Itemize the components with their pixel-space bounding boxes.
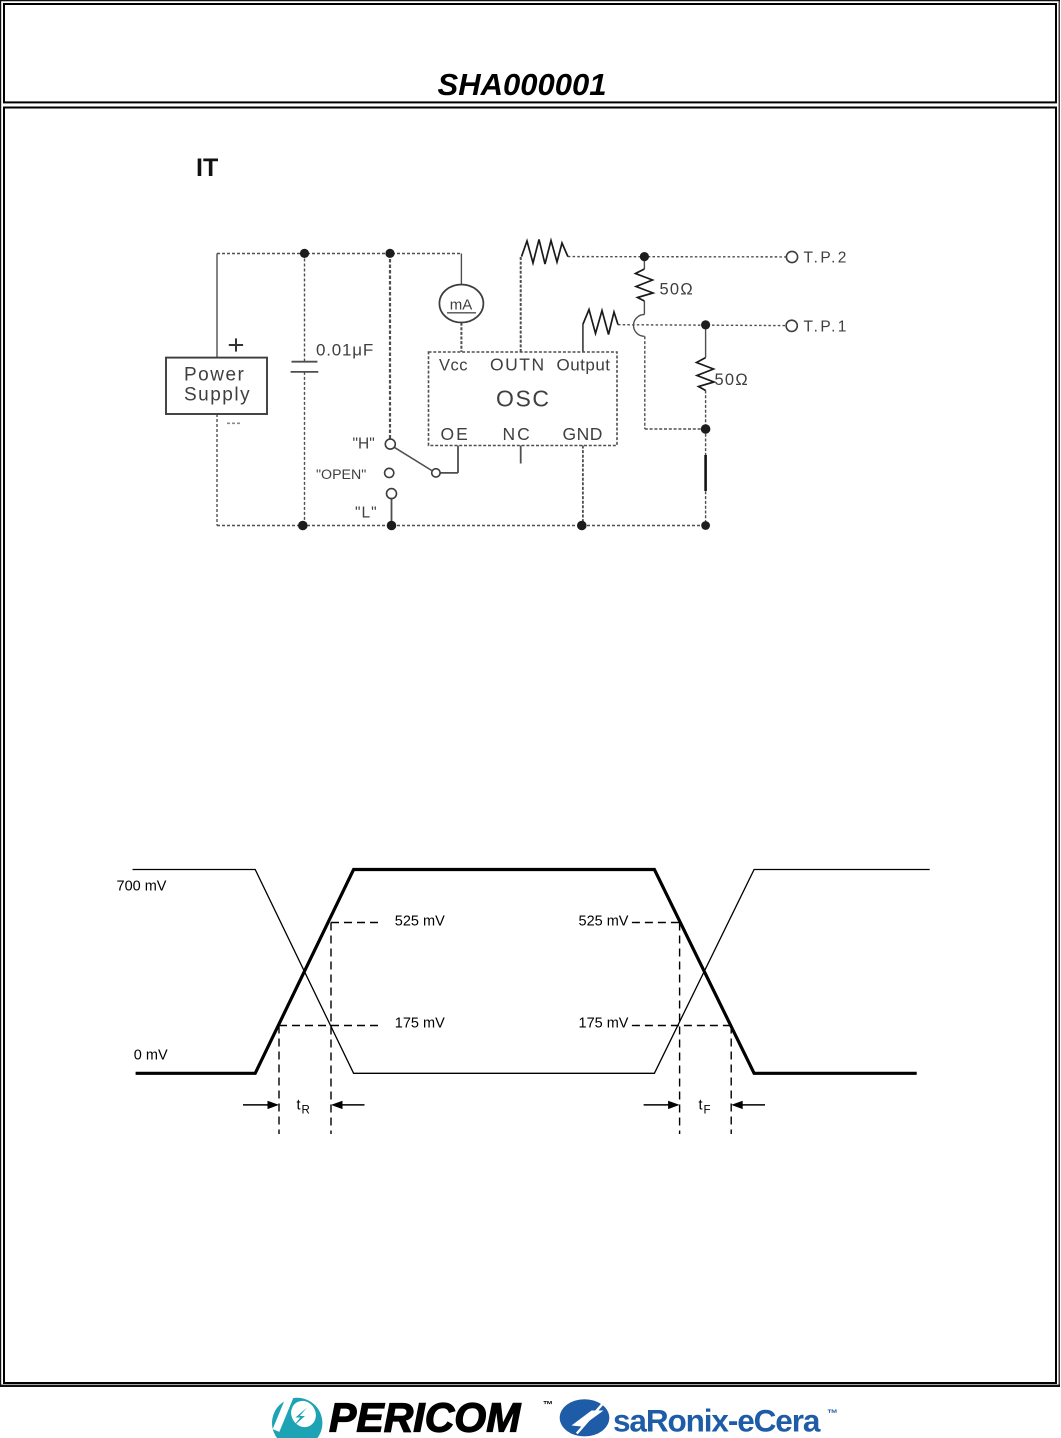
svg-text:0.01μF: 0.01μF bbox=[316, 341, 374, 360]
svg-text:50Ω: 50Ω bbox=[660, 281, 695, 299]
svg-text:175 mV: 175 mV bbox=[395, 1016, 445, 1032]
svg-text:175 mV: 175 mV bbox=[579, 1016, 629, 1032]
svg-text:™: ™ bbox=[543, 1400, 553, 1411]
svg-text:Supply: Supply bbox=[184, 385, 251, 406]
svg-text:"H": "H" bbox=[353, 436, 375, 453]
svg-text:PERICOM: PERICOM bbox=[329, 1395, 521, 1438]
svg-text:OSC: OSC bbox=[496, 386, 551, 412]
svg-text:0 mV: 0 mV bbox=[134, 1048, 168, 1064]
svg-text:T.P.2: T.P.2 bbox=[804, 250, 849, 267]
svg-text:50Ω: 50Ω bbox=[715, 371, 750, 389]
svg-text:T.P.1: T.P.1 bbox=[804, 319, 849, 336]
svg-text:700 mV: 700 mV bbox=[117, 879, 167, 895]
svg-text:Power: Power bbox=[184, 365, 245, 386]
svg-text:t: t bbox=[699, 1098, 703, 1114]
svg-text:GND: GND bbox=[563, 424, 603, 444]
svg-text:Vcc: Vcc bbox=[439, 357, 468, 375]
svg-text:OUTN: OUTN bbox=[490, 355, 546, 375]
svg-text:mA: mA bbox=[450, 297, 473, 314]
svg-text:saRonix-eCera: saRonix-eCera bbox=[613, 1403, 821, 1438]
svg-text:525 mV: 525 mV bbox=[395, 914, 445, 930]
svg-text:Output: Output bbox=[557, 356, 611, 375]
svg-text:"OPEN": "OPEN" bbox=[316, 467, 366, 483]
svg-text:"L": "L" bbox=[355, 505, 378, 522]
svg-text:NC: NC bbox=[503, 424, 532, 444]
svg-text:™: ™ bbox=[827, 1408, 838, 1420]
svg-text:IT: IT bbox=[196, 154, 218, 182]
svg-text:SHA000001: SHA000001 bbox=[438, 67, 607, 102]
svg-text:t: t bbox=[297, 1098, 301, 1114]
svg-text:525 mV: 525 mV bbox=[579, 914, 629, 930]
svg-text:F: F bbox=[704, 1105, 711, 1117]
svg-text:R: R bbox=[302, 1105, 310, 1117]
svg-text:OE: OE bbox=[441, 424, 470, 444]
